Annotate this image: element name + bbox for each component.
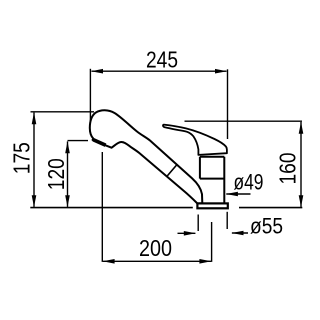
dim line 120	[67, 141, 69, 207]
dia 55 left arrow	[178, 232, 196, 234]
dimension 245: line	[92, 70, 227, 72]
dia 55 ext stubs	[197, 215, 199, 232]
arrow 120 down	[65, 195, 70, 207]
nozzle thick band	[93, 140, 105, 146]
dim line 160	[300, 122, 302, 207]
label 160	[274, 153, 300, 185]
svg-text:120: 120	[43, 158, 69, 190]
dimension 120: tick	[68, 140, 89, 142]
label 175	[8, 142, 34, 174]
dimension 160: ref line top	[185, 120, 303, 122]
lever handle with cartridge cap	[163, 125, 227, 155]
body column	[200, 157, 224, 204]
arrow 245 left	[91, 69, 103, 74]
svg-text:160: 160	[274, 153, 300, 185]
arrow 200 left	[103, 259, 115, 264]
arrow 200 right	[199, 259, 211, 264]
arrow 160 down	[299, 195, 304, 207]
svg-text:175: 175	[8, 142, 34, 174]
faucet spray head and spout tube outline	[90, 110, 203, 203]
label 120	[43, 158, 69, 190]
arrow 160 up	[299, 122, 304, 134]
base flange	[197, 203, 227, 208]
dim line 175	[33, 113, 35, 207]
deck line left	[30, 207, 193, 209]
svg-text:ø49: ø49	[234, 170, 264, 195]
svg-text:245: 245	[146, 46, 178, 72]
arrow 175 down	[32, 195, 37, 207]
dim line 200	[103, 260, 211, 262]
ext line 245 left	[89, 69, 91, 121]
axis ext	[211, 222, 213, 262]
deck line right	[239, 207, 302, 209]
spout joint tick	[167, 165, 176, 176]
arrow 245 right	[215, 69, 227, 74]
ext line 245 right	[227, 69, 229, 139]
dia 49 leader arrow	[226, 193, 250, 195]
arrow 120 up	[65, 141, 70, 153]
dia 55 right arrow	[232, 232, 248, 234]
arrow 175 up	[32, 112, 37, 124]
svg-text:ø55: ø55	[250, 214, 283, 239]
dimension 175: ref line top	[31, 111, 95, 113]
svg-text:200: 200	[139, 235, 172, 261]
dimension 200: left ext	[101, 152, 103, 262]
